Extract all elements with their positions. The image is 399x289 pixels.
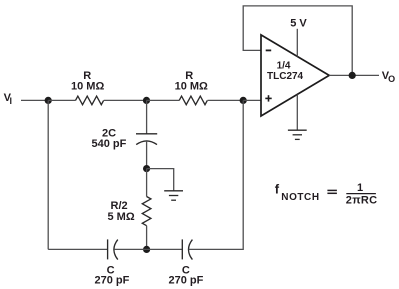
- svg-text:V: V: [299, 18, 307, 30]
- wire node A to resistor R1: [48, 99, 75, 101]
- wire node E to capacitor C2: [147, 248, 183, 250]
- wire node B down to capacitor 2C: [146, 100, 148, 133]
- capacitor 2C: [136, 134, 157, 145]
- wire R1 to node B: [104, 99, 147, 101]
- svg-text:2πRC: 2πRC: [346, 194, 378, 206]
- wire R3 to node E: [146, 226, 148, 250]
- node A junction: [45, 97, 52, 104]
- svg-text:540 pF: 540 pF: [92, 138, 127, 150]
- svg-text:NOTCH: NOTCH: [281, 192, 319, 203]
- resistor R2: [179, 96, 207, 105]
- node E junction: [143, 246, 150, 253]
- wire left branch node A down to bottom rail: [47, 100, 49, 249]
- capacitor C1: [108, 239, 118, 259]
- wire op-amp ground stem: [296, 95, 298, 131]
- resistor R3 (R/2): [142, 197, 151, 226]
- svg-text:10 MΩ: 10 MΩ: [71, 80, 104, 92]
- capacitor C2: [182, 239, 192, 259]
- op-amp U1 triangle: [261, 35, 329, 116]
- node D junction: [143, 165, 150, 172]
- node F output junction: [349, 72, 356, 79]
- svg-text:O: O: [388, 74, 395, 84]
- node VI input label: [4, 92, 12, 106]
- svg-text:R/2: R/2: [111, 200, 128, 212]
- ground G1: [164, 191, 183, 200]
- wire node D down to resistor R3: [146, 169, 148, 197]
- wire capacitor C2 to right rail up to node C: [189, 100, 243, 249]
- wire node D to ground branch: [147, 169, 174, 191]
- formula f NOTCH: [275, 182, 320, 203]
- ground G2: [288, 130, 307, 139]
- node VO output label: [382, 70, 395, 84]
- svg-text:TLC274: TLC274: [267, 71, 304, 82]
- svg-text:270 pF: 270 pF: [169, 274, 204, 286]
- svg-text:270 pF: 270 pF: [95, 274, 130, 286]
- wire node B to resistor R2: [147, 99, 180, 101]
- svg-text:5 MΩ: 5 MΩ: [108, 211, 135, 223]
- wire feedback loop from inverting input to output node: [243, 6, 352, 76]
- svg-text:I: I: [10, 96, 13, 106]
- svg-text:1: 1: [357, 182, 363, 194]
- svg-text:5: 5: [290, 18, 296, 30]
- resistor R1: [76, 96, 104, 105]
- node B junction: [143, 97, 150, 104]
- wire input VI to node A: [21, 99, 48, 101]
- wire node C to op-amp noninverting input: [243, 99, 261, 101]
- wire capacitor 2C to node D: [146, 141, 148, 169]
- wire op-amp output to VO: [329, 74, 379, 76]
- wire capacitor C1 to node E: [114, 248, 146, 250]
- formula fraction bar: [346, 193, 376, 195]
- formula equals sign: [327, 190, 337, 193]
- op-amp noninverting input plus sign: [265, 95, 271, 101]
- wire 5 V supply stem: [296, 29, 298, 57]
- op-amp inverting input minus sign: [266, 49, 272, 51]
- node C junction: [240, 97, 247, 104]
- wire bottom rail left to capacitor C1: [48, 248, 107, 250]
- wire R2 to node C: [208, 99, 244, 101]
- svg-text:10 MΩ: 10 MΩ: [175, 80, 208, 92]
- svg-text:f: f: [275, 182, 280, 197]
